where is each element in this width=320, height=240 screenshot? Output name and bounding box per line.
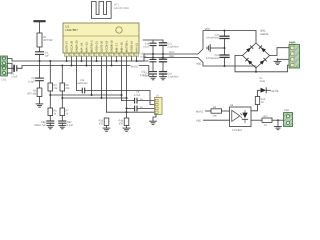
ground CB6 bbox=[47, 126, 54, 129]
svg-text:HT1: HT1 bbox=[114, 3, 120, 6]
wire CN1 pin1 bbox=[7, 59, 12, 62]
ground R14 bbox=[123, 128, 130, 131]
wire pin10 down bbox=[111, 53, 113, 66]
svg-text:VEE: VEE bbox=[196, 119, 201, 122]
wire VCC rail mid bbox=[144, 31, 256, 54]
node p12 y95 bbox=[121, 94, 123, 96]
resistor R4 bbox=[48, 83, 53, 91]
wire CN1 pin4 bbox=[7, 68, 12, 73]
capacitor C23 bbox=[220, 36, 229, 38]
wire R9 to opto bbox=[222, 110, 230, 112]
heatsink HT1 bbox=[92, 2, 112, 19]
diode BR1 top-right bbox=[261, 48, 266, 53]
svg-text:VCCA-26: VCCA-26 bbox=[70, 40, 73, 52]
wire BR1 top to VCC bbox=[255, 31, 257, 43]
wire BR1 ac1 bbox=[270, 48, 290, 56]
wire bus to R4 bbox=[49, 61, 51, 83]
capacitor C4 bbox=[36, 52, 44, 55]
svg-text:INB--17: INB--17 bbox=[115, 42, 118, 52]
svg-text:+NP/4.7uF: +NP/4.7uF bbox=[34, 124, 46, 127]
C23 label bbox=[206, 34, 220, 40]
svg-text:MUTEA-2: MUTEA-2 bbox=[90, 40, 93, 52]
wire mute to R9 bbox=[206, 110, 212, 112]
resistor R10 bbox=[255, 97, 259, 105]
wire R7 to CB7 bbox=[61, 116, 63, 121]
wire pwr gnd pin bbox=[278, 58, 290, 60]
ground R13 bbox=[103, 128, 110, 131]
wire y98 bbox=[62, 97, 126, 99]
R13 label bbox=[99, 119, 104, 125]
CB7 label bbox=[67, 121, 74, 127]
wire p12 to J4 bbox=[122, 100, 155, 102]
wire CN1 pin3 bbox=[7, 63, 13, 68]
svg-text:0.1uF: 0.1uF bbox=[67, 124, 74, 127]
wire p13 to J4 bbox=[127, 107, 155, 109]
wire R5 to R7 bbox=[61, 91, 63, 108]
node pin10 bbox=[111, 65, 113, 67]
C21 label bbox=[168, 42, 179, 48]
svg-text:GNDA-25: GNDA-25 bbox=[75, 40, 78, 52]
wire pin6 down bbox=[91, 53, 93, 95]
wire feedback A y90.5 bbox=[77, 91, 155, 105]
svg-text:+NP/100V: +NP/100V bbox=[77, 82, 88, 85]
wire pin15 down bbox=[136, 53, 138, 61]
svg-text:CN2: CN2 bbox=[284, 109, 290, 112]
svg-text:4148: 4148 bbox=[260, 80, 266, 83]
R7 label bbox=[66, 109, 70, 115]
wire R14 gnd bbox=[126, 126, 128, 128]
svg-text:2.2uF: 2.2uF bbox=[11, 76, 18, 79]
R14 label bbox=[119, 119, 124, 125]
capacitor C24 bbox=[220, 55, 229, 57]
wire col C21 bbox=[162, 40, 164, 71]
node pin1 bbox=[66, 60, 68, 62]
svg-text:VSSA-21: VSSA-21 bbox=[95, 41, 98, 53]
wire pin13 down bbox=[126, 53, 128, 118]
connector CN1 bbox=[1, 56, 8, 76]
svg-text:0.1uF: 0.1uF bbox=[28, 80, 35, 83]
svg-text:IN+: IN+ bbox=[140, 98, 144, 101]
bridge BR1 outline bbox=[243, 43, 270, 68]
wire R13 gnd bbox=[106, 126, 108, 128]
capacitor C22 bbox=[160, 72, 167, 74]
svg-text:2R7/7W: 2R7/7W bbox=[43, 39, 53, 42]
connector PWR bbox=[289, 45, 300, 69]
U1 pin pads bbox=[65, 53, 139, 56]
wire mute stub bbox=[139, 66, 149, 77]
ground pwr bbox=[274, 61, 281, 64]
connector CN2 bbox=[284, 113, 293, 127]
svg-text:1uF: 1uF bbox=[45, 54, 50, 57]
node R5 y98 bbox=[61, 97, 63, 99]
wire VEE rail mid bbox=[144, 58, 256, 67]
resistor R1 bbox=[37, 33, 42, 47]
capacitor C18 bbox=[150, 59, 156, 61]
capacitor C17 bbox=[150, 72, 157, 74]
svg-text:INB+-16: INB+-16 bbox=[120, 42, 123, 52]
ground psu bbox=[207, 45, 210, 52]
diode BR1 top-left bbox=[246, 48, 251, 53]
svg-text:VCC: VCC bbox=[169, 51, 174, 54]
R2 label bbox=[27, 90, 37, 96]
svg-text:2.2uF/50V: 2.2uF/50V bbox=[168, 76, 179, 79]
C1 label bbox=[11, 73, 18, 79]
wire decoupling top bbox=[143, 39, 163, 41]
node pin7 bbox=[96, 60, 98, 62]
R9 label bbox=[213, 106, 218, 118]
svg-text:20K: 20K bbox=[213, 115, 218, 118]
wire R13 R14 tie bbox=[107, 111, 155, 113]
wire R10 to D1 bbox=[258, 90, 261, 96]
svg-text:AAVID 6398: AAVID 6398 bbox=[114, 7, 129, 10]
wire pin3 down bbox=[76, 53, 78, 91]
ground CB7 bbox=[59, 126, 66, 129]
svg-text:1K: 1K bbox=[264, 124, 267, 127]
resistor R6 bbox=[48, 108, 53, 116]
node pin5 bbox=[86, 65, 88, 67]
capacitor C21 bbox=[160, 43, 167, 46]
wire C17 gnd bbox=[152, 74, 154, 76]
capacitor CB7 bbox=[59, 121, 66, 123]
connector J4 bbox=[155, 98, 163, 115]
op-amp U1 LM4780T body bbox=[63, 23, 139, 53]
svg-text:GNDB-18: GNDB-18 bbox=[110, 40, 113, 52]
svg-text:CN1: CN1 bbox=[1, 79, 7, 82]
svg-text:LM4780T: LM4780T bbox=[65, 28, 78, 32]
node pin11 bbox=[116, 60, 118, 62]
wire BR1 ac2 loop bbox=[235, 56, 289, 72]
wire J4 gnd bbox=[153, 115, 156, 122]
wire CB7 to gnd bbox=[61, 123, 63, 125]
resistor R14 bbox=[124, 118, 129, 126]
svg-text:VEE: VEE bbox=[196, 63, 201, 66]
CB6 label bbox=[34, 121, 47, 127]
svg-text:0.1uF: 0.1uF bbox=[143, 74, 150, 77]
C17 label bbox=[143, 71, 150, 77]
svg-text:KBL06: KBL06 bbox=[261, 33, 269, 36]
C9 label bbox=[140, 71, 147, 77]
C19 label bbox=[77, 79, 88, 85]
wire pin11 down bbox=[116, 53, 118, 61]
node p13 y108.4 bbox=[126, 107, 128, 109]
svg-text:MUTE: MUTE bbox=[272, 90, 279, 93]
D1 label bbox=[260, 77, 266, 83]
C4 label bbox=[45, 51, 50, 57]
svg-text:0.1uF: 0.1uF bbox=[143, 46, 150, 49]
wire col C16 bbox=[152, 40, 154, 71]
svg-text:2.2uF/50V: 2.2uF/50V bbox=[168, 45, 179, 48]
svg-text:MUTEB-1: MUTEB-1 bbox=[125, 40, 128, 52]
resistor R9 bbox=[211, 109, 222, 113]
wire R1 to C4 bbox=[39, 47, 41, 52]
resistor R11 bbox=[262, 118, 272, 122]
R6 label bbox=[54, 109, 58, 115]
svg-text:VEE: VEE bbox=[169, 55, 174, 58]
node pin6 y95 bbox=[91, 94, 93, 96]
wire pin7 down bbox=[96, 53, 98, 61]
svg-text:VSSB-14: VSSB-14 bbox=[130, 41, 133, 53]
R5 label bbox=[66, 84, 71, 90]
wire R4 to R6 bbox=[49, 91, 51, 108]
node pin4 bbox=[81, 60, 83, 62]
wire vee to opto bbox=[204, 119, 230, 121]
heatsink label bbox=[114, 3, 129, 10]
optocoupler U3 bbox=[230, 107, 252, 127]
capacitor C16 bbox=[150, 43, 156, 45]
R1 label bbox=[43, 36, 53, 42]
C22 label bbox=[168, 73, 179, 79]
wire R6 to CB6 bbox=[49, 116, 51, 121]
wire bus to C2 bbox=[39, 61, 41, 78]
wire pin9 down bbox=[106, 53, 108, 112]
capacitor C19 bbox=[82, 88, 84, 93]
capacitor CB6 bbox=[47, 121, 54, 123]
svg-text:4.7uF: 4.7uF bbox=[134, 94, 141, 97]
resistor R13 bbox=[104, 118, 109, 126]
U1 pin names bbox=[65, 40, 138, 52]
resistor R7 bbox=[60, 108, 65, 116]
svg-text:INA--24: INA--24 bbox=[80, 42, 83, 52]
diode BR1 bottom-left bbox=[248, 60, 253, 65]
svg-text:C19: C19 bbox=[80, 79, 85, 82]
wire psu gnd tap bbox=[210, 47, 224, 49]
svg-text:MUTE: MUTE bbox=[131, 65, 139, 68]
svg-text:INA+-23: INA+-23 bbox=[85, 42, 88, 52]
svg-text:47K: 47K bbox=[99, 122, 104, 125]
svg-text:VCC: VCC bbox=[205, 28, 211, 31]
capacitor C1 bbox=[14, 66, 18, 71]
node rail crossings bbox=[152, 53, 164, 59]
wire pin8 down bbox=[101, 53, 103, 98]
C16 label bbox=[143, 43, 150, 49]
wire C2 to R2 bbox=[39, 81, 41, 88]
node C4-bus bbox=[39, 60, 41, 62]
capacitor C19 bbox=[160, 59, 167, 62]
C8 label bbox=[134, 91, 141, 97]
resistor R5 bbox=[60, 83, 65, 91]
C15 label bbox=[141, 53, 147, 59]
node R4 y95 bbox=[49, 94, 51, 96]
svg-text:VCCB-19: VCCB-19 bbox=[105, 40, 108, 52]
svg-text:VAA-13: VAA-13 bbox=[135, 43, 138, 53]
wire pin14 down bbox=[131, 53, 133, 61]
node p13 y98 bbox=[126, 97, 128, 99]
U1 labels bbox=[65, 24, 78, 32]
svg-text:MUTE: MUTE bbox=[196, 110, 204, 113]
svg-text:4700uF/50V: 4700uF/50V bbox=[206, 57, 219, 60]
U1 mounting hole bbox=[116, 27, 122, 33]
wire rail tie bbox=[137, 54, 145, 61]
capacitor C11 bbox=[135, 106, 137, 111]
svg-text:4700uF/50V: 4700uF/50V bbox=[206, 37, 219, 40]
wire CN1 pin2 bbox=[7, 62, 12, 64]
diode D1 bbox=[261, 88, 271, 93]
wire pin4 down bbox=[81, 53, 83, 61]
ground C17 bbox=[150, 77, 157, 80]
wire input to bus bbox=[19, 66, 72, 69]
ground C22 bbox=[160, 77, 167, 80]
terminal bar bbox=[35, 20, 45, 22]
node pin8 y98 bbox=[101, 97, 103, 99]
ground J4 bbox=[150, 121, 157, 124]
wire R11 to CN2 bbox=[272, 119, 284, 121]
R10 label bbox=[261, 98, 266, 104]
svg-text:OUTA-27: OUTA-27 bbox=[65, 41, 68, 53]
C2 label bbox=[28, 77, 35, 83]
wire opto collector up bbox=[251, 105, 258, 111]
R11 label bbox=[264, 115, 269, 127]
svg-text:OUTB-20: OUTB-20 bbox=[100, 40, 103, 52]
ground CN2 bbox=[275, 127, 282, 130]
svg-text:PWR: PWR bbox=[289, 40, 296, 44]
ground R2 bbox=[36, 104, 43, 107]
wire pin5 down bbox=[86, 53, 88, 66]
wire R2 to gnd bbox=[39, 97, 41, 104]
svg-text:R11: R11 bbox=[264, 115, 269, 118]
svg-text:IN-: IN- bbox=[140, 106, 143, 109]
wire pin2 down bbox=[71, 53, 73, 66]
wire pin1 down bbox=[66, 53, 68, 61]
wire C4 to bus bbox=[39, 54, 41, 61]
capacitor C10 bbox=[135, 98, 137, 103]
wire CB6 to gnd bbox=[49, 123, 51, 125]
wire bus2 to R5 bbox=[61, 66, 63, 84]
wire bar to R1 bbox=[39, 22, 41, 33]
wire gnd stub cn2 bbox=[277, 120, 279, 126]
svg-text:1K: 1K bbox=[261, 101, 264, 104]
wire bus y65.5 right bbox=[72, 65, 131, 67]
wire BR1 bottom stub bbox=[255, 68, 257, 72]
wire opto emitter out bbox=[251, 119, 262, 121]
capacitor C2 bbox=[36, 78, 44, 81]
wire C22 gnd bbox=[162, 74, 164, 76]
wire pin12 down bbox=[121, 53, 123, 101]
wire psu cap column bbox=[224, 31, 226, 66]
BR1 labels bbox=[261, 29, 269, 35]
node pin2 bbox=[71, 65, 73, 67]
svg-text:47K: 47K bbox=[119, 122, 124, 125]
diode BR1 bottom-right bbox=[260, 60, 265, 65]
svg-text:LTV-817: LTV-817 bbox=[233, 129, 243, 132]
R4 label bbox=[54, 84, 59, 90]
wire main bus y61 bbox=[12, 60, 148, 62]
C24 label bbox=[206, 54, 220, 60]
U1 pin numbers bbox=[65, 54, 138, 57]
resistor R2 bbox=[37, 88, 42, 97]
wire feedback B y95 bbox=[50, 94, 121, 96]
svg-text:2R7/1W: 2R7/1W bbox=[27, 93, 37, 96]
